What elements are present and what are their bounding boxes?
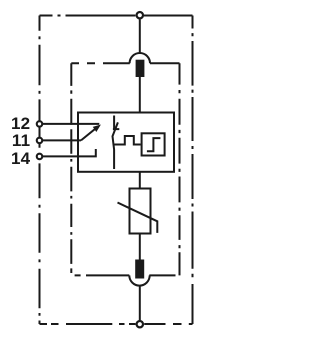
wire: inner frame lead right of arc to module corner bbox=[150, 62, 180, 64]
wire: terminal 14 line with NO contact tick bbox=[43, 149, 96, 156]
thermal disconnector F2 fuse body bbox=[135, 260, 144, 279]
thermal disconnector F1 fuse body bbox=[136, 60, 145, 77]
outer enclosure frame right edge bbox=[192, 16, 194, 325]
inner protection-module frame right edge bbox=[179, 63, 181, 275]
pulse signal line to indicator bbox=[114, 136, 140, 145]
varistor RV1 diagonal stroke bbox=[118, 203, 158, 233]
thermal disconnector F1 arc bbox=[130, 53, 150, 63]
wire: varistor to lower disconnector bbox=[139, 234, 141, 260]
wire: lower disconnector arc to bottom terminal bbox=[139, 286, 141, 321]
monitoring device box U1 bbox=[78, 113, 174, 172]
varistor RV1 body bbox=[130, 189, 151, 234]
node: terminal 12 bbox=[37, 121, 43, 127]
thermal disconnector F2 arc bbox=[129, 275, 149, 285]
outer enclosure frame left edge bbox=[39, 16, 41, 325]
inner protection-module frame left edge bbox=[70, 63, 72, 273]
wire: terminal 11 line bbox=[43, 139, 82, 141]
node: terminal 11 bbox=[37, 138, 43, 144]
changeover contact blade (from 11) bbox=[81, 127, 97, 140]
wire: top terminal to thermal disconnector arc bbox=[139, 19, 141, 53]
disconnector switch blade inside monitoring box bbox=[113, 116, 120, 170]
svg-text:14: 14 bbox=[11, 149, 31, 168]
inner protection-module frame bottom edge bbox=[75, 274, 176, 276]
outer enclosure frame bottom edge bbox=[40, 323, 193, 325]
wire: monitoring box to varistor bbox=[139, 172, 141, 188]
step function symbol inside indicator bbox=[147, 138, 161, 151]
svg-text:11: 11 bbox=[12, 131, 30, 150]
inner protection-module frame top edge bbox=[71, 62, 130, 64]
wire: terminal 12 line bbox=[43, 123, 100, 125]
changeover contact arrowhead bbox=[94, 125, 101, 131]
wire: disconnector to monitoring box bbox=[139, 77, 141, 112]
node: top terminal bbox=[137, 12, 143, 18]
indicator square with step symbol bbox=[142, 133, 165, 155]
node: terminal 14 bbox=[37, 154, 43, 160]
outer enclosure frame top edge bbox=[40, 15, 193, 17]
node: bottom terminal bbox=[137, 321, 143, 327]
